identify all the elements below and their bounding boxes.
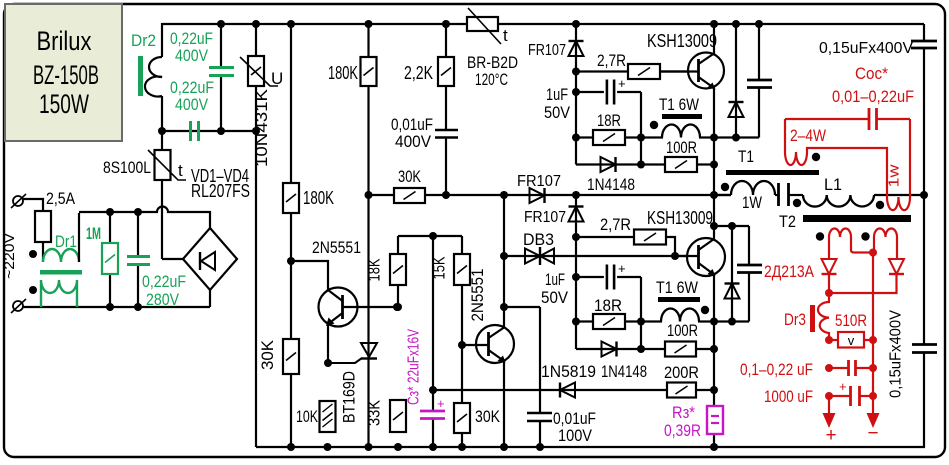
svg-text:100R: 100R (667, 321, 698, 340)
svg-text:KSH13009: KSH13009 (647, 31, 717, 51)
junction dots top rail (252, 20, 260, 28)
resistor 200R (667, 383, 696, 398)
capacitor 0,01uF 100V (527, 412, 552, 415)
capacitor 0,1-0,22uF output (829, 367, 848, 369)
svg-text:0,1–0,22 uF: 0,1–0,22 uF (740, 360, 813, 379)
capacitor 0,15uFx400V bottom (912, 343, 937, 346)
svg-text:+: + (437, 396, 445, 411)
capacitor Cz* 22uFx16V (420, 410, 445, 413)
wire fuse input (23, 199, 43, 211)
svg-text:0,01–0,22uF: 0,01–0,22uF (832, 87, 914, 106)
capacitor 0,22uF 280V (127, 255, 150, 258)
svg-text:50V: 50V (541, 288, 569, 307)
diode clamp #1 (729, 102, 744, 117)
svg-text:+: + (618, 261, 626, 276)
svg-text:0,15uFx400V: 0,15uFx400V (819, 40, 913, 57)
winding T1 6W #2 (658, 297, 700, 302)
junction dot node 18K15K (429, 232, 437, 240)
wire 180K#2 column x291 (290, 24, 292, 447)
winding 1W red on T2 (887, 119, 910, 210)
terminal input bottom (13, 301, 23, 311)
title box Brilux BZ-150B 150W (5, 4, 122, 141)
resistor 10K (320, 401, 336, 432)
wire AC bus y212 with hop (79, 207, 210, 229)
svg-text:400V: 400V (395, 132, 432, 151)
svg-text:2Д213А: 2Д213А (764, 262, 815, 281)
resistor R3* 0,39R (707, 406, 723, 434)
capacitor 1uF 50V #2 (604, 263, 617, 292)
svg-text:Cз* 22uFx16V: Cз* 22uFx16V (406, 329, 423, 405)
capacitor 0,22uF 400V #2 (189, 121, 192, 141)
wire 15K column (461, 236, 463, 345)
svg-text:180K: 180K (303, 188, 334, 208)
junction dots bottom bus (287, 443, 295, 451)
wire x641 upper link (640, 92, 642, 165)
svg-text:150W: 150W (39, 89, 89, 119)
resistor 100R #2 (665, 342, 696, 357)
svg-text:RL207FS: RL207FS (191, 181, 250, 201)
svg-text:2,7R: 2,7R (600, 215, 631, 234)
diode FR107 #2 (530, 188, 545, 203)
wire 180K#1/thyristor column x368 (367, 24, 369, 447)
wire 30K#3 column (461, 345, 463, 447)
diode 1N5819 (560, 383, 575, 398)
wire bottom bus (256, 446, 925, 448)
wire 2,7R#1 run (576, 70, 698, 72)
wire 2,7R#2 run (576, 237, 675, 256)
capacitor snubber #1 (747, 79, 772, 82)
resistor 100R #1 (665, 157, 697, 172)
wire x641 lower link (640, 277, 642, 349)
svg-text:2N5551: 2N5551 (468, 269, 487, 322)
wire 2,2K column x446 (445, 24, 447, 130)
wire 1N4148#2 100R#2 run (576, 348, 714, 350)
winding 2-4W red (785, 119, 887, 197)
wire node y131 (162, 130, 256, 132)
svg-text:30K: 30K (475, 407, 501, 426)
wire Q2 emitter (503, 361, 505, 447)
inductor Dr1 (43, 249, 79, 262)
svg-text:L1: L1 (824, 175, 842, 194)
resistor 33K (390, 400, 406, 432)
svg-text:30K: 30K (258, 339, 277, 370)
wire 1uF#1 run (576, 91, 641, 93)
svg-text:1w: 1w (886, 164, 903, 187)
junction dot L1 out (920, 191, 928, 199)
resistor 510R with voltmeter (829, 339, 873, 341)
svg-text:KSH13009: KSH13009 (647, 208, 713, 228)
svg-text:10N431K: 10N431K (252, 88, 271, 167)
svg-text:DB3: DB3 (523, 230, 554, 249)
svg-text:33K: 33K (365, 399, 384, 426)
wire x576 upper driver column (575, 24, 577, 165)
svg-text:~220V: ~220V (1, 233, 18, 279)
svg-text:2,5A: 2,5A (46, 189, 76, 208)
svg-text:400V: 400V (175, 95, 209, 114)
junction dots emitter column lower (710, 222, 718, 230)
svg-text:t: t (503, 26, 508, 45)
capacitor snubber #2 (737, 264, 762, 267)
wire 18K column (397, 236, 399, 307)
winding T2 secondary A (829, 229, 871, 261)
resistor 180K #1 (361, 57, 377, 86)
junction dots upper driver (572, 68, 580, 76)
svg-text:1uF: 1uF (546, 85, 568, 104)
svg-text:T2: T2 (779, 212, 796, 231)
transformer T2 core (803, 215, 911, 222)
svg-text:280V: 280V (146, 290, 180, 309)
wire Q3-Q4 emitter column x714 (713, 24, 715, 447)
wire Dr2 column x162 (161, 23, 163, 57)
varistor 10N431K (248, 56, 264, 86)
svg-text:15K: 15K (430, 256, 449, 280)
capacitor 0,15uFx400V top (911, 40, 937, 43)
svg-text:2–4W: 2–4W (790, 126, 826, 145)
wire Q4 clamp branch y226 (714, 225, 749, 227)
wire T1 primary to L1 run (714, 194, 731, 196)
svg-text:2N5551: 2N5551 (312, 238, 361, 257)
svg-text:Brilux: Brilux (37, 26, 92, 56)
svg-text:100R: 100R (666, 138, 697, 157)
svg-text:10K: 10K (296, 407, 318, 426)
resistor 180K #2 (283, 183, 299, 213)
wire T1-6W#2 run y321 (641, 320, 662, 322)
svg-text:1uF: 1uF (545, 270, 565, 289)
svg-text:510R: 510R (835, 311, 867, 330)
thermistor 8S100L (155, 150, 171, 180)
resistor 18R #2 (593, 314, 625, 329)
resistor 30K #1 (394, 188, 425, 203)
svg-text:Dr1: Dr1 (55, 232, 77, 251)
output terminal plus (828, 396, 830, 414)
junction dots y195 (365, 191, 373, 199)
wire T1-6W#1 run y137 (641, 136, 663, 138)
inductor Dr3 (818, 293, 829, 340)
svg-text:T1 6W: T1 6W (659, 95, 699, 114)
capacitor T1-L1 coupling (777, 183, 780, 206)
svg-text:30K: 30K (398, 167, 422, 186)
svg-text:Dr2: Dr2 (131, 31, 156, 50)
svg-text:0,39R: 0,39R (664, 421, 701, 440)
svg-text:18R: 18R (597, 111, 621, 130)
wire Q2 collector branch y307 (504, 306, 540, 308)
wire DB3 run y256 (504, 255, 698, 257)
transistor Q4 KSH13009 (687, 238, 725, 276)
svg-text:−: − (867, 423, 878, 444)
wire clamp diode#2 column (731, 226, 733, 322)
transistor Q3 KSH13009 (688, 53, 724, 89)
svg-text:FR107: FR107 (517, 173, 561, 190)
node center tap (872, 253, 874, 414)
resistor 15K (454, 254, 470, 285)
svg-text:200R: 200R (664, 363, 699, 382)
svg-text:FR107: FR107 (528, 42, 566, 59)
winding T1 primary 1W (731, 181, 775, 195)
svg-text:2,7R: 2,7R (597, 51, 626, 70)
svg-text:180K: 180K (328, 63, 358, 83)
diode 1N4148 #1 (601, 157, 616, 172)
svg-text:400V: 400V (175, 46, 209, 65)
wire 1uF#2 run (576, 276, 641, 278)
resistor 18R #1 (593, 130, 625, 145)
resistor 2,7R #2 (634, 230, 666, 245)
output terminal minus (867, 413, 880, 428)
svg-text:0,15uFx400V: 0,15uFx400V (888, 310, 905, 398)
svg-text:1000 uF: 1000 uF (764, 387, 813, 406)
wire clamp diode#1 column (735, 24, 737, 138)
wire 18R#1 run (576, 136, 641, 138)
resistor 18K (390, 254, 406, 285)
wire 1M column x110 (109, 212, 111, 243)
svg-text:Coc*: Coc* (855, 64, 888, 83)
svg-text:2,2K: 2,2K (404, 63, 433, 83)
wire 18K15K node (398, 235, 462, 237)
capacitor 1000uF output (829, 395, 850, 397)
svg-text:U: U (271, 69, 283, 88)
junction dots EMI (217, 20, 225, 28)
svg-text:1W: 1W (742, 193, 762, 212)
svg-text:t: t (178, 161, 183, 180)
transformer T1 core (726, 170, 819, 175)
svg-text:T1: T1 (738, 147, 754, 166)
diode 2D213A #2 (889, 259, 904, 274)
winding T1 6W #1 (662, 114, 702, 119)
wire y390 feedback run (433, 389, 714, 391)
capacitor 0,01uF 400V (435, 129, 458, 132)
wire right rail down (923, 24, 925, 41)
svg-text:+: + (618, 76, 626, 91)
capacitor Coc* (868, 108, 871, 130)
resistor 30K #3 (454, 403, 470, 433)
fuse 2,5A (35, 211, 51, 242)
junction dots input (106, 208, 114, 216)
wire x576 lower driver column (575, 195, 577, 349)
wire top +rail (162, 23, 924, 25)
wire cap column x221 (220, 24, 222, 67)
svg-text:BZ-150B: BZ-150B (33, 60, 99, 90)
wire Cz cap column (432, 390, 434, 411)
svg-text:120°C: 120°C (475, 70, 508, 89)
fuse BR-B2D (467, 17, 498, 31)
wire y195 run (369, 194, 732, 196)
svg-text:1N4148: 1N4148 (601, 362, 647, 381)
junction dots mid column (287, 257, 295, 265)
svg-text:100V: 100V (558, 426, 593, 445)
wire 30K#1 output x504 (503, 195, 505, 327)
svg-text:18R: 18R (594, 296, 622, 315)
resistor 2,7R #1 (628, 64, 660, 79)
inductor Dr2 (145, 57, 162, 97)
svg-text:v: v (848, 333, 855, 348)
diac DB3 (525, 249, 540, 264)
svg-text:0,22uF: 0,22uF (142, 272, 186, 291)
resistor 30K #2 (283, 339, 299, 374)
junction dots emitter column upper (710, 134, 718, 142)
transistor Q2 2N5551 (476, 325, 514, 363)
svg-text:Dr3: Dr3 (784, 310, 806, 329)
svg-text:BT169D: BT169D (340, 371, 359, 423)
winding T2 secondary B (874, 229, 897, 261)
svg-text:+: + (839, 379, 847, 394)
svg-text:50V: 50V (544, 103, 571, 122)
wire 1N4148#1 100R#1 run (576, 163, 714, 165)
svg-text:Rз*: Rз* (672, 403, 695, 422)
capacitor 0,22uF 400V #1 (209, 66, 234, 69)
wire 18R#2 run (576, 320, 641, 322)
wire cap280 column x138 (137, 212, 139, 256)
inductor L1 (803, 195, 874, 207)
bridge VD1-VD4 (183, 228, 237, 290)
wire snubber cap#1 column (758, 24, 760, 80)
capacitor 1uF 50V #1 (604, 78, 617, 107)
diode FR107 #3 (569, 207, 584, 222)
wire x256 varistor/bridge column (255, 24, 257, 447)
diode clamp #2 (725, 284, 740, 299)
svg-text:1N4148: 1N4148 (587, 175, 635, 194)
svg-text:+: + (825, 425, 836, 446)
wire x540 snubber column (539, 307, 541, 413)
svg-text:FR107: FR107 (524, 209, 566, 226)
resistor 2,2K (438, 57, 454, 86)
diode 2D213A #1 (822, 259, 837, 274)
svg-text:1N5819: 1N5819 (541, 362, 596, 381)
wire snubber cap#2 column (748, 226, 750, 265)
terminal input top (13, 196, 23, 206)
diode FR107 #1 (569, 41, 584, 56)
svg-text:18K: 18K (365, 258, 384, 282)
wire thermistor to bridge (161, 180, 163, 259)
wire AC bottom y307 (23, 306, 210, 308)
svg-text:1M: 1M (86, 224, 101, 243)
svg-text:T1 6W: T1 6W (656, 278, 698, 297)
svg-text:8S100L: 8S100L (103, 158, 151, 177)
junction dots lower driver (572, 233, 580, 241)
transistor Q1 2N5551 (319, 288, 358, 327)
resistor 1M (102, 243, 118, 274)
thyristor BT169D (361, 343, 377, 357)
diode 1N4148 #2 (602, 342, 617, 357)
